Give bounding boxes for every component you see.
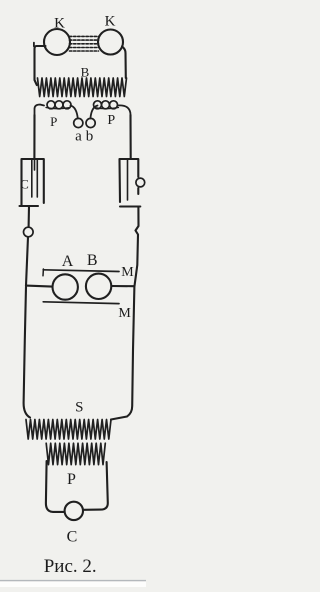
svg-text:M: M xyxy=(118,306,131,321)
svg-text:P: P xyxy=(107,113,115,128)
svg-text:P: P xyxy=(50,114,57,129)
svg-text:b: b xyxy=(86,129,94,145)
svg-text:B: B xyxy=(81,65,90,80)
svg-text:A: A xyxy=(62,253,74,270)
svg-text:B: B xyxy=(87,252,98,269)
svg-text:a: a xyxy=(75,129,82,145)
svg-text:C: C xyxy=(20,177,29,192)
svg-text:K: K xyxy=(54,15,65,31)
svg-text:K: K xyxy=(105,13,116,29)
svg-text:P: P xyxy=(67,471,76,488)
svg-text:S: S xyxy=(75,400,83,416)
svg-text:Рис. 2.: Рис. 2. xyxy=(44,556,97,577)
svg-text:M: M xyxy=(121,265,134,280)
svg-text:C: C xyxy=(67,528,78,545)
